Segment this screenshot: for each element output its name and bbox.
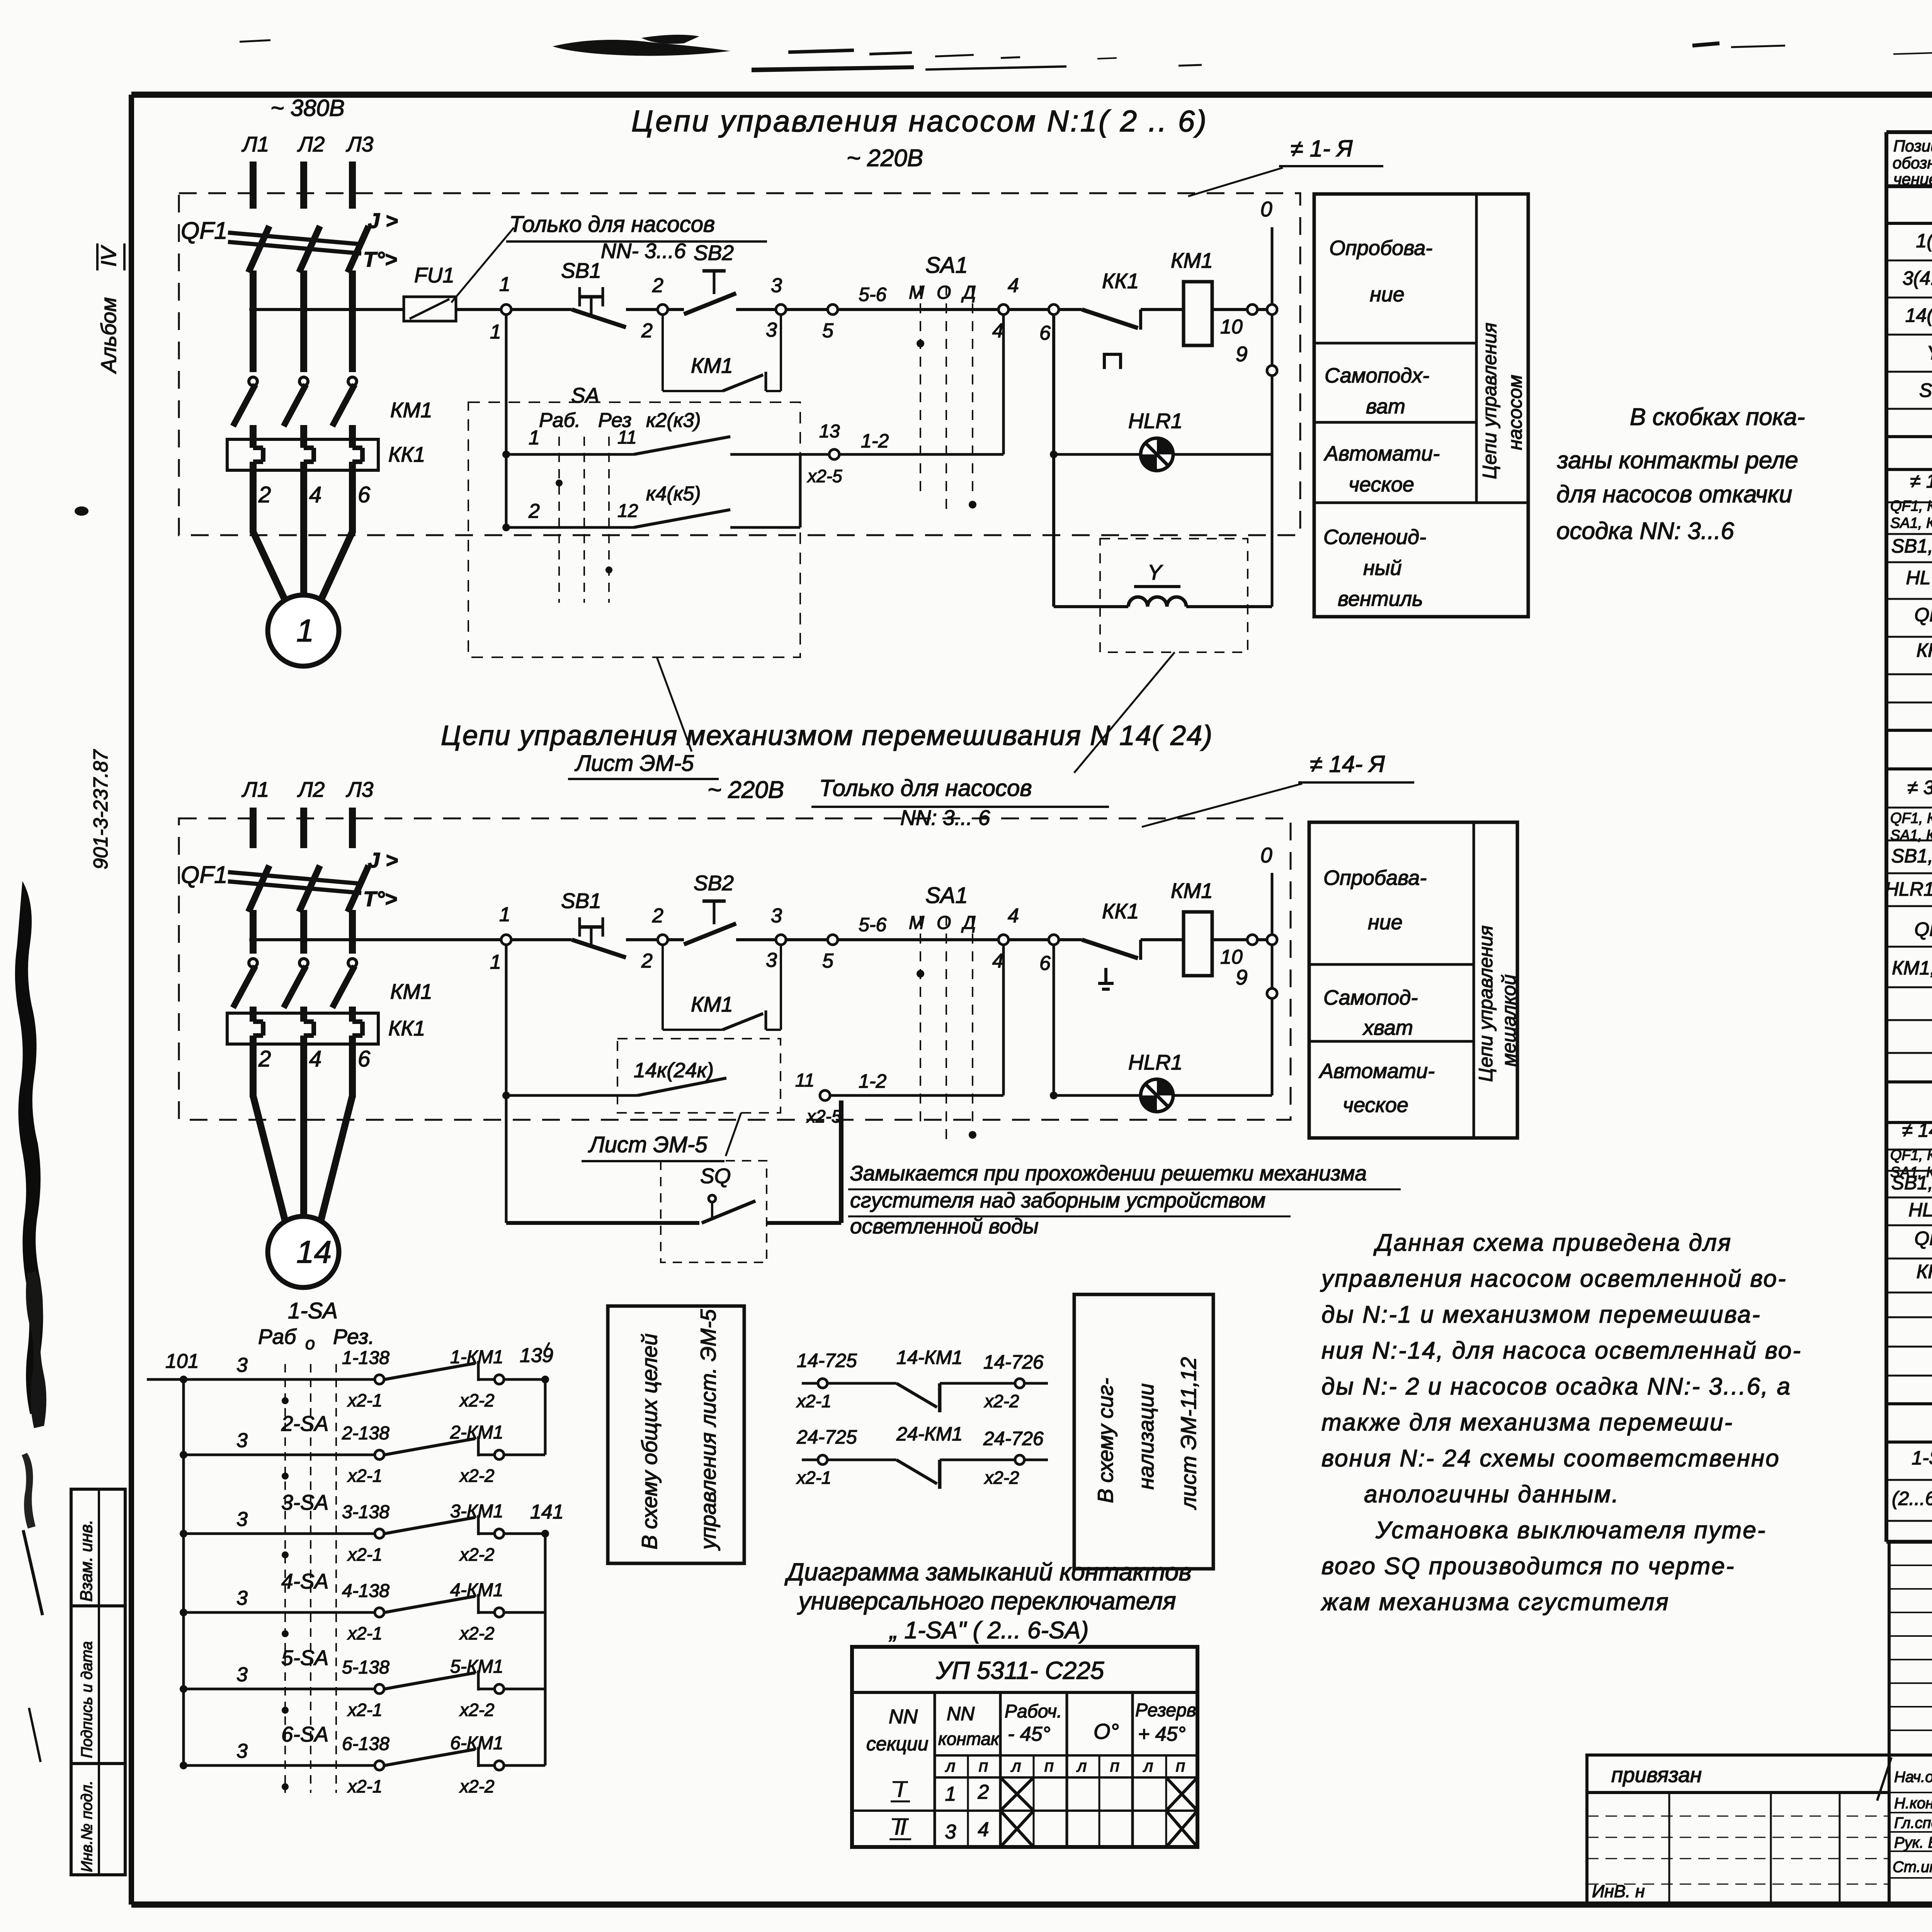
svg-text:Замыкается при прохождении реш: Замыкается при прохождении решетки механ… [850, 1161, 1367, 1185]
svg-text:2-138: 2-138 [342, 1423, 389, 1444]
svg-text:3-138: 3-138 [342, 1502, 389, 1522]
svg-text:1: 1 [945, 1783, 956, 1805]
svg-text:х2-2: х2-2 [459, 1544, 494, 1565]
svg-text:~ 220В: ~ 220В [847, 145, 923, 172]
svg-text:4: 4 [1008, 274, 1019, 297]
svg-text:насосом: насосом [1504, 375, 1526, 450]
svg-text:HLR1: HLR1 [1128, 409, 1183, 433]
svg-text:Альбом: Альбом [97, 297, 121, 374]
svg-text:КК1: КК1 [1102, 899, 1139, 923]
svg-text:Раб: Раб [258, 1325, 297, 1349]
svg-text:х2-1: х2-1 [796, 1468, 831, 1488]
svg-text:Самопод-: Самопод- [1323, 986, 1418, 1009]
svg-text:SB2: SB2 [694, 871, 734, 895]
svg-text:5-SA: 5-SA [281, 1646, 328, 1670]
svg-text:SА1, КК1: SА1, КК1 [1890, 827, 1932, 844]
svg-text:5-6: 5-6 [859, 914, 886, 935]
svg-text:2: 2 [528, 500, 540, 522]
svg-text:Гл.спец: Гл.спец [1894, 1815, 1932, 1832]
svg-text:х2-2: х2-2 [459, 1466, 494, 1486]
svg-text:х2-5: х2-5 [806, 1106, 842, 1126]
svg-text:4: 4 [992, 320, 1003, 342]
svg-text:заны контакты реле: заны контакты реле [1557, 447, 1798, 474]
svg-text:л: л [1143, 1757, 1153, 1776]
svg-text:О: О [937, 282, 951, 303]
svg-text:12: 12 [617, 501, 638, 521]
svg-text:Цепи управления насосом N:1: Цепи управления насосом N:1( 2 .. 6) [631, 104, 1208, 138]
svg-text:Цепи управления: Цепи управления [1475, 925, 1497, 1082]
svg-text:3: 3 [945, 1821, 956, 1843]
svg-text:к2(к3): к2(к3) [646, 409, 701, 432]
svg-text:14-КМ1: 14-КМ1 [896, 1347, 963, 1368]
svg-text:х2-1: х2-1 [347, 1390, 382, 1410]
svg-text:также для механизма переме: также для механизма перемеши- [1321, 1409, 1733, 1436]
svg-text:1(2): 1(2) [1916, 230, 1932, 252]
svg-text:901-3-237.87: 901-3-237.87 [90, 749, 112, 869]
svg-text:М: М [909, 913, 924, 933]
svg-text:Ст.инж: Ст.инж [1893, 1859, 1932, 1876]
svg-text:≠ 14- Я: ≠ 14- Я [1310, 751, 1385, 777]
svg-text:QF1: QF1 [181, 218, 228, 244]
svg-text:Н.конт.: Н.конт. [1894, 1795, 1932, 1812]
svg-text:ды N:- 2 и насосов осадка: ды N:- 2 и насосов осадка NN:- 3...6, а [1321, 1373, 1791, 1400]
svg-text:ИнВ. н: ИнВ. н [1592, 1881, 1645, 1901]
svg-text:КМ1: КМ1 [1171, 248, 1213, 272]
svg-text:х2-2: х2-2 [459, 1623, 494, 1643]
svg-text:Опробова-: Опробова- [1329, 236, 1432, 260]
svg-text:ды N:-1 и механизмом перем: ды N:-1 и механизмом перемешива- [1321, 1301, 1761, 1328]
svg-text:управления насосом осветленн: управления насосом осветленной во- [1320, 1265, 1787, 1292]
svg-text:2: 2 [641, 950, 653, 972]
svg-text:1: 1 [499, 903, 510, 926]
svg-text:КК1: КК1 [388, 442, 425, 466]
svg-text:Подпись и дата: Подпись и дата [78, 1641, 95, 1758]
svg-text:к4(к5): к4(к5) [646, 483, 701, 505]
svg-text:≠ 1-А: ≠ 1-А [1910, 470, 1932, 492]
svg-text:Только для насосов: Только для насосов [819, 775, 1032, 801]
svg-text:SB1: SB1 [561, 889, 601, 913]
svg-text:13: 13 [819, 421, 840, 442]
svg-text:Данная схема приведена для: Данная схема приведена для [1373, 1230, 1732, 1256]
svg-text:6-138: 6-138 [342, 1734, 389, 1754]
svg-text:Соленоид-: Соленоид- [1323, 526, 1426, 549]
svg-text:24-КМ1: 24-КМ1 [896, 1423, 963, 1445]
svg-text:Инв.№ подл.: Инв.№ подл. [78, 1781, 95, 1872]
svg-text:сгустителя над заборным устр: сгустителя над заборным устройством [850, 1188, 1265, 1212]
svg-text:2: 2 [978, 1781, 989, 1803]
svg-text:ный: ный [1363, 556, 1401, 580]
svg-text:HLR1: HLR1 [1128, 1050, 1183, 1074]
svg-text:14к(24к): 14к(24к) [634, 1059, 714, 1082]
svg-text:3: 3 [236, 1354, 248, 1376]
svg-text:5: 5 [822, 950, 834, 972]
svg-text:х2-2: х2-2 [984, 1391, 1019, 1411]
svg-text:л: л [945, 1757, 956, 1776]
svg-text:2-КМ1: 2-КМ1 [450, 1422, 503, 1443]
svg-text:~ 220В: ~ 220В [707, 777, 784, 803]
svg-text:3: 3 [236, 1740, 248, 1762]
svg-text:J >: J > [368, 848, 398, 872]
svg-text:контак: контак [938, 1729, 1000, 1749]
svg-text:SQ: SQ [700, 1164, 731, 1188]
svg-text:3-SA: 3-SA [281, 1490, 328, 1514]
svg-text:вония N:- 24 схемы соответст: вония N:- 24 схемы соответственно [1321, 1445, 1780, 1472]
svg-text:Автомати-: Автомати- [1323, 442, 1440, 465]
svg-text:универсального переключателя: универсального переключателя [797, 1587, 1176, 1615]
svg-text:п: п [1176, 1757, 1185, 1776]
svg-text:HL R1: HL R1 [1906, 567, 1932, 588]
svg-text:х2-1: х2-1 [796, 1391, 831, 1411]
svg-text:QF1: QF1 [1914, 1228, 1932, 1249]
svg-text:3: 3 [766, 949, 777, 971]
svg-text:11: 11 [617, 427, 637, 448]
svg-text:IV: IV [97, 245, 121, 267]
svg-text:9: 9 [1236, 965, 1248, 989]
svg-text:3: 3 [766, 319, 777, 341]
svg-text:1-SA: 1-SA [288, 1298, 338, 1323]
svg-text:осодка NN: 3...6: осодка NN: 3...6 [1556, 518, 1734, 544]
svg-text:4: 4 [309, 1046, 321, 1071]
svg-text:10: 10 [1220, 316, 1243, 338]
svg-text:SB2: SB2 [694, 241, 734, 265]
svg-text:Лист ЭМ-5: Лист ЭМ-5 [574, 751, 694, 776]
svg-text:6: 6 [1039, 322, 1051, 344]
svg-text:FU1: FU1 [414, 263, 454, 287]
svg-text:осветленной воды: осветленной воды [850, 1214, 1039, 1238]
svg-text:QF1: QF1 [181, 862, 228, 888]
svg-text:5-6: 5-6 [859, 284, 886, 305]
svg-text:В схему общих целей: В схему общих целей [637, 1333, 662, 1549]
svg-text:КМ1: КМ1 [390, 398, 432, 422]
svg-text:В скобках пока-: В скобках пока- [1630, 404, 1805, 430]
svg-text:4: 4 [992, 950, 1003, 972]
svg-text:QF1: QF1 [1914, 918, 1932, 940]
svg-text:QF1: QF1 [1914, 604, 1932, 626]
svg-text:(2...6-SА): (2...6-SА) [1892, 1488, 1932, 1509]
svg-text:х2-5: х2-5 [807, 466, 842, 486]
svg-text:1: 1 [296, 613, 314, 648]
svg-text:привязан: привязан [1611, 1763, 1702, 1787]
svg-text:3: 3 [236, 1429, 248, 1452]
svg-text:КМ1: КМ1 [691, 992, 733, 1016]
svg-text:М: М [909, 282, 924, 303]
svg-text:1-2: 1-2 [859, 1070, 886, 1092]
svg-text:КК1: КК1 [388, 1016, 425, 1040]
svg-text:нализации: нализации [1134, 1383, 1158, 1490]
svg-text:1: 1 [499, 273, 510, 296]
svg-text:вого SQ производится по че: вого SQ производится по черте- [1321, 1553, 1735, 1580]
svg-text:3: 3 [236, 1508, 248, 1531]
svg-text:анологичны данным.: анологичны данным. [1364, 1481, 1620, 1508]
svg-text:SА1, КК1: SА1, КК1 [1890, 515, 1932, 531]
svg-text:0: 0 [1260, 843, 1272, 867]
svg-text:24-725: 24-725 [796, 1426, 857, 1448]
svg-text:1-КМ1: 1-КМ1 [450, 1347, 503, 1367]
svg-text:+ 45°: + 45° [1138, 1723, 1185, 1745]
svg-text:3: 3 [236, 1587, 248, 1609]
svg-text:х2-1: х2-1 [347, 1466, 382, 1486]
svg-text:2: 2 [652, 905, 663, 927]
svg-text:КМ1: КМ1 [390, 980, 432, 1003]
svg-text:4: 4 [309, 482, 321, 507]
svg-text:о: о [305, 1333, 315, 1353]
svg-text:HLR1, FU1: HLR1, FU1 [1885, 878, 1932, 900]
svg-text:КМ1, КК1: КМ1, КК1 [1892, 957, 1932, 979]
svg-text:Л3: Л3 [346, 132, 374, 156]
svg-text:2: 2 [258, 1046, 271, 1071]
svg-text:1: 1 [490, 951, 501, 973]
svg-text:ние: ние [1368, 911, 1403, 934]
svg-text:1-2: 1-2 [861, 430, 889, 452]
svg-text:SB1, SB2: SB1, SB2 [1891, 535, 1932, 557]
svg-text:Диаграмма замыканий контакто: Диаграмма замыканий контактов [784, 1558, 1191, 1586]
svg-text:КМ1: КМ1 [691, 354, 733, 378]
svg-text:О: О [937, 913, 951, 933]
svg-text:3-КМ1: 3-КМ1 [450, 1501, 503, 1522]
svg-text:ват: ват [1366, 395, 1405, 418]
svg-text:QF1, КМ1,: QF1, КМ1, [1890, 498, 1932, 514]
svg-text:14(24): 14(24) [1905, 304, 1932, 326]
svg-text:Позиц: Позиц [1893, 137, 1932, 155]
svg-text:SB1: SB1 [561, 259, 601, 282]
svg-text:КК1: КК1 [1102, 269, 1139, 293]
svg-text:вентиль: вентиль [1338, 587, 1423, 611]
svg-text:Резерв: Резерв [1135, 1700, 1196, 1721]
svg-text:х2-1: х2-1 [347, 1623, 382, 1643]
svg-text:NN: NN [889, 1706, 918, 1728]
svg-text:х2-2: х2-2 [459, 1700, 494, 1720]
svg-text:4-КМ1: 4-КМ1 [450, 1580, 503, 1600]
svg-text:4: 4 [978, 1818, 989, 1841]
svg-text:SА1, КК1: SА1, КК1 [1890, 1164, 1932, 1180]
svg-text:Цепи управления: Цепи управления [1479, 323, 1500, 479]
svg-text:6-SA: 6-SA [281, 1722, 328, 1746]
svg-text:мешалкой: мешалкой [1498, 975, 1520, 1066]
svg-text:~ 380В: ~ 380В [270, 95, 345, 121]
svg-text:2-SA: 2-SA [281, 1412, 328, 1435]
svg-text:Лист ЭМ-5: Лист ЭМ-5 [588, 1132, 707, 1157]
svg-text:п: п [979, 1757, 988, 1776]
svg-text:КК1: КК1 [1917, 639, 1932, 661]
svg-text:≠ 14- А: ≠ 14- А [1902, 1119, 1932, 1141]
svg-text:14-725: 14-725 [797, 1350, 857, 1371]
svg-text:КМ1: КМ1 [1171, 879, 1213, 903]
svg-text:4-138: 4-138 [342, 1581, 389, 1601]
svg-text:п: п [1110, 1757, 1119, 1776]
svg-text:Т°>: Т°> [363, 247, 397, 271]
svg-text:2: 2 [641, 320, 653, 342]
svg-text:Y: Y [1148, 560, 1163, 584]
svg-text:Рез.: Рез. [333, 1325, 374, 1349]
svg-text:О°: О° [1094, 1719, 1119, 1743]
svg-text:6: 6 [1039, 952, 1051, 975]
svg-text:Автомати-: Автомати- [1318, 1060, 1435, 1083]
svg-text:Л2: Л2 [297, 777, 325, 801]
svg-text:NN- 3...6: NN- 3...6 [601, 239, 686, 263]
svg-text:141: 141 [530, 1501, 564, 1523]
svg-text:5-138: 5-138 [342, 1657, 389, 1678]
svg-text:х2-1: х2-1 [347, 1776, 382, 1796]
svg-text:лист ЭМ-11,12: лист ЭМ-11,12 [1176, 1357, 1201, 1510]
svg-text:Цепи управления механизмом: Цепи управления механизмом перемешивания… [441, 720, 1213, 751]
svg-text:14: 14 [296, 1235, 332, 1270]
svg-text:SA: SA [571, 383, 599, 407]
svg-text:для насосов откачки: для насосов откачки [1556, 481, 1792, 508]
svg-text:≠ 1- Я: ≠ 1- Я [1291, 136, 1353, 162]
svg-text:3(4...6): 3(4...6) [1903, 267, 1932, 289]
svg-text:SA1: SA1 [925, 883, 968, 908]
svg-text:- 45°: - 45° [1008, 1723, 1050, 1745]
svg-text:л: л [1076, 1757, 1087, 1776]
svg-text:Взам. инв.: Взам. инв. [77, 1520, 96, 1602]
svg-text:х2-1: х2-1 [347, 1544, 382, 1565]
svg-text:3: 3 [771, 905, 782, 927]
svg-text:5: 5 [822, 320, 834, 342]
svg-text:п: п [1044, 1757, 1054, 1776]
svg-text:3: 3 [771, 274, 782, 297]
svg-text:жам механизма сгустителя: жам механизма сгустителя [1320, 1589, 1670, 1616]
svg-text:х2-2: х2-2 [459, 1390, 494, 1410]
svg-text:SВ1, SВ2: SВ1, SВ2 [1891, 845, 1932, 867]
svg-text:Нач.отд.: Нач.отд. [1894, 1769, 1932, 1786]
svg-text:обозна-: обозна- [1893, 154, 1932, 172]
svg-text:139: 139 [520, 1344, 553, 1367]
svg-text:ния N:-14, для насоса осве: ния N:-14, для насоса осветленнай во- [1321, 1337, 1802, 1364]
svg-text:3: 3 [236, 1663, 248, 1686]
svg-text:УП 5311- С225: УП 5311- С225 [936, 1656, 1104, 1684]
svg-text:ческое: ческое [1343, 1094, 1408, 1117]
svg-text:Л1: Л1 [241, 132, 269, 156]
svg-text:HLR1: HLR1 [1908, 1199, 1932, 1221]
svg-text:6: 6 [358, 482, 371, 507]
svg-text:24-726: 24-726 [983, 1428, 1044, 1449]
svg-text:QF1, КМ1,: QF1, КМ1, [1890, 1147, 1932, 1163]
svg-text:х2-2: х2-2 [459, 1776, 494, 1796]
svg-text:1-SА: 1-SА [1912, 1447, 1932, 1469]
svg-text:5-КМ1: 5-КМ1 [450, 1656, 503, 1677]
svg-text:1-138: 1-138 [342, 1348, 389, 1368]
svg-text:л: л [1010, 1757, 1021, 1776]
svg-text:SQ: SQ [1919, 379, 1932, 401]
svg-text:4-SA: 4-SA [281, 1569, 328, 1593]
svg-text:секции: секции [866, 1733, 929, 1755]
svg-text:Y: Y [1927, 342, 1932, 364]
svg-text:NN: NN [947, 1703, 975, 1725]
svg-text:КК1: КК1 [1917, 1261, 1932, 1282]
svg-text:1: 1 [529, 427, 540, 449]
svg-text:Опробава-: Опробава- [1323, 866, 1427, 889]
svg-text:SA1: SA1 [925, 253, 968, 278]
svg-text:11: 11 [795, 1070, 815, 1091]
svg-text:Самоподх-: Самоподх- [1325, 364, 1429, 387]
svg-text:2: 2 [652, 274, 663, 297]
svg-text:6: 6 [358, 1046, 371, 1071]
svg-text:ние: ние [1370, 283, 1405, 306]
svg-text:101: 101 [165, 1350, 199, 1372]
svg-text:Только для насосов: Только для насосов [509, 212, 715, 237]
svg-text:Л2: Л2 [297, 132, 325, 156]
svg-text:ческое: ческое [1349, 473, 1414, 496]
svg-text:9: 9 [1236, 342, 1248, 366]
svg-text:QF1, КМ1,: QF1, КМ1, [1890, 810, 1932, 827]
svg-text:чение: чение [1893, 170, 1932, 188]
svg-text:Установка выключателя путе-: Установка выключателя путе- [1375, 1517, 1767, 1544]
svg-text:управления лист. ЭМ-5: управления лист. ЭМ-5 [696, 1309, 720, 1551]
svg-text:Рабоч.: Рабоч. [1005, 1701, 1062, 1722]
svg-text:В схему сиг-: В схему сиг- [1093, 1378, 1117, 1503]
svg-text:Т°>: Т°> [363, 887, 397, 911]
svg-text:Л1: Л1 [241, 777, 269, 801]
svg-text:14-726: 14-726 [983, 1351, 1044, 1373]
svg-text:4: 4 [1008, 905, 1019, 927]
svg-text:0: 0 [1260, 197, 1272, 221]
svg-text:Рук. Бр: Рук. Бр [1894, 1834, 1932, 1851]
svg-text:Д: Д [961, 913, 976, 933]
svg-text:Раб.: Раб. [539, 409, 580, 432]
svg-text:х2-1: х2-1 [347, 1700, 382, 1720]
svg-text:х2-2: х2-2 [984, 1468, 1019, 1488]
svg-text:„ 1-SА" ( 2... 6-SА): „ 1-SА" ( 2... 6-SА) [889, 1617, 1089, 1644]
svg-text:1: 1 [490, 321, 501, 343]
svg-text:≠ 3- А: ≠ 3- А [1907, 777, 1932, 798]
svg-text:хват: хват [1362, 1016, 1413, 1039]
svg-text:6-КМ1: 6-КМ1 [450, 1733, 503, 1753]
svg-text:Л3: Л3 [346, 777, 374, 801]
svg-text:Д: Д [961, 282, 976, 303]
svg-text:J >: J > [368, 209, 398, 233]
svg-text:2: 2 [258, 482, 271, 507]
